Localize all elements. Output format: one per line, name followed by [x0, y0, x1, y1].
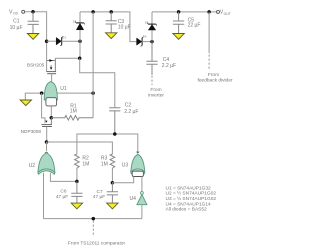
- svg-text:U3 = ½ SN74AUP1G02: U3 = ½ SN74AUP1G02: [166, 195, 217, 202]
- ground for U1 input: [20, 100, 31, 106]
- svg-text:22 µF: 22 µF: [188, 23, 201, 29]
- wire BSH205 source to D1 node: [55, 57, 79, 59]
- wire R2 bottom: [76, 169, 78, 182]
- node From feedback divider label: [198, 72, 233, 84]
- node comparator tap junction: [92, 217, 96, 221]
- wire bottom rail: [44, 218, 142, 220]
- node rail-R1net junction: [91, 10, 95, 14]
- node U2 output junction: [45, 140, 49, 144]
- node VDD-C1 junction: [31, 10, 35, 14]
- svg-text:1M: 1M: [70, 109, 77, 115]
- capacitor C6: [56, 181, 83, 202]
- svg-text:10 µF: 10 µF: [10, 25, 23, 31]
- svg-text:From: From: [208, 72, 219, 78]
- svg-text:1M: 1M: [82, 162, 89, 168]
- svg-text:feedback divider: feedback divider: [198, 78, 233, 84]
- diode D1: [75, 21, 85, 29]
- svg-text:10 µF: 10 µF: [118, 25, 131, 31]
- capacitor C5: [173, 12, 200, 34]
- wire output rail: [152, 11, 217, 13]
- diode D3: [56, 36, 63, 46]
- node U1 left junction: [40, 91, 44, 95]
- node R2-C6 junction: [75, 180, 79, 184]
- node C2-R2 rail junction: [113, 132, 117, 136]
- node From inverter label: [148, 87, 164, 99]
- svg-text:U4: U4: [130, 196, 137, 202]
- svg-text:47 µF: 47 µF: [93, 194, 105, 200]
- svg-text:inverter: inverter: [148, 92, 164, 98]
- wire U4 input from bottom rail: [141, 205, 143, 219]
- node BSH205-C2 junction: [78, 57, 82, 61]
- resistor R3: [101, 153, 115, 168]
- svg-text:NDP3008: NDP3008: [21, 129, 42, 134]
- wire boost net vertical: [92, 12, 94, 118]
- svg-text:BSH205: BSH205: [27, 63, 45, 68]
- wire to C2: [80, 58, 115, 107]
- wire U2 left input: [43, 173, 45, 219]
- svg-text:1M: 1M: [101, 162, 108, 168]
- wire boost rail top: [80, 12, 137, 42]
- svg-text:U1 = SN74AUP1G32: U1 = SN74AUP1G32: [166, 185, 212, 191]
- wire U2 output to R3: [47, 142, 113, 153]
- gate U1 OR (SN74AUP1G32): [44, 82, 67, 106]
- wire feedback tap dashed: [208, 55, 210, 71]
- wire VDD rail: [25, 12, 47, 72]
- svg-text:From: From: [150, 87, 161, 93]
- svg-text:All diodes = BAS52: All diodes = BAS52: [166, 207, 208, 213]
- svg-text:R2: R2: [82, 155, 89, 161]
- wire U3 right input to U4: [141, 177, 143, 192]
- ground for C6: [71, 203, 82, 209]
- ground for C3: [106, 33, 117, 39]
- wire from inverter dashed: [151, 76, 153, 86]
- svg-text:DD: DD: [13, 12, 18, 16]
- node D1-D3 junction: [78, 39, 82, 43]
- wire D4 cathode to D2 node: [142, 41, 152, 43]
- ground for C7: [107, 203, 118, 209]
- wire D3 cathode to D1 node: [62, 40, 80, 42]
- wire U3 left input to R3 node: [112, 177, 133, 183]
- node U1 right junction: [91, 91, 95, 95]
- node rail-C5 junction: [177, 10, 181, 14]
- svg-text:D3: D3: [62, 36, 66, 40]
- wire U2 output stub: [46, 142, 48, 151]
- node VDD terminal: [9, 9, 25, 15]
- capacitor C4: [146, 42, 176, 75]
- svg-text:C7: C7: [97, 189, 103, 195]
- wire R3 bottom: [111, 169, 113, 183]
- node R1 left junction: [50, 116, 54, 120]
- node VOUT terminal: [217, 10, 231, 16]
- gate U3 NOR (SN74AUP1G02): [122, 152, 145, 177]
- svg-text:47 µF: 47 µF: [56, 194, 68, 200]
- capacitor C7: [93, 183, 118, 203]
- svg-text:U3: U3: [122, 163, 129, 169]
- svg-text:R3: R3: [101, 155, 108, 161]
- svg-text:2.2 µF: 2.2 µF: [124, 109, 138, 115]
- wire U1 left input to ground: [25, 93, 44, 100]
- wire R2 top rail: [77, 134, 138, 153]
- svg-text:D2: D2: [145, 20, 149, 24]
- wire D1 branch vertical: [79, 12, 81, 58]
- diode D4: [137, 37, 144, 47]
- svg-text:U2: U2: [29, 163, 36, 169]
- node VOUT junction: [207, 10, 211, 14]
- svg-text:U2 = ½ SN74AUP1G02: U2 = ½ SN74AUP1G02: [166, 190, 217, 197]
- wire feedback tap solid: [208, 12, 210, 53]
- wire U2 right input: [50, 173, 77, 182]
- svg-text:C2: C2: [125, 103, 132, 109]
- wire D2 branch vertical: [151, 12, 153, 42]
- node D2-D4-C4 junction: [150, 40, 154, 44]
- svg-text:U4 = SN74AUP1G14: U4 = SN74AUP1G14: [166, 201, 212, 207]
- svg-text:OUT: OUT: [224, 12, 231, 16]
- capacitor C1: [10, 12, 39, 34]
- node parts list: [166, 185, 217, 212]
- svg-text:From TS12011 comparator: From TS12011 comparator: [68, 241, 126, 247]
- resistor R2: [75, 153, 90, 168]
- capacitor C2: [109, 103, 138, 134]
- wire comparator dashed: [92, 221, 94, 237]
- gate U4 inverter (SN74AUP1G14): [130, 192, 147, 205]
- ground for C1: [27, 34, 38, 40]
- wire U1 right input: [57, 92, 93, 94]
- ground for C5: [173, 34, 184, 40]
- svg-text:D1: D1: [73, 19, 77, 23]
- svg-text:2.2 µF: 2.2 µF: [162, 63, 176, 69]
- gate U2 NOR (SN74AUP1G02): [29, 152, 55, 174]
- node R3-C7 junction: [111, 181, 115, 185]
- transistor Q2 NDP3008: [21, 93, 52, 142]
- svg-text:C1: C1: [13, 19, 20, 25]
- wire U1 output stub: [50, 106, 52, 118]
- svg-text:C6: C6: [60, 189, 66, 195]
- node D3 anode junction: [45, 39, 49, 43]
- wire D3 anode: [47, 40, 57, 42]
- resistor R1: [51, 103, 93, 120]
- svg-text:D4: D4: [143, 34, 147, 38]
- capacitor C3: [106, 12, 131, 33]
- node rail-C3 junction: [109, 10, 113, 14]
- transistor Q1 BSH205: [27, 58, 56, 82]
- svg-text:U1: U1: [60, 86, 67, 92]
- diode D2: [147, 23, 157, 30]
